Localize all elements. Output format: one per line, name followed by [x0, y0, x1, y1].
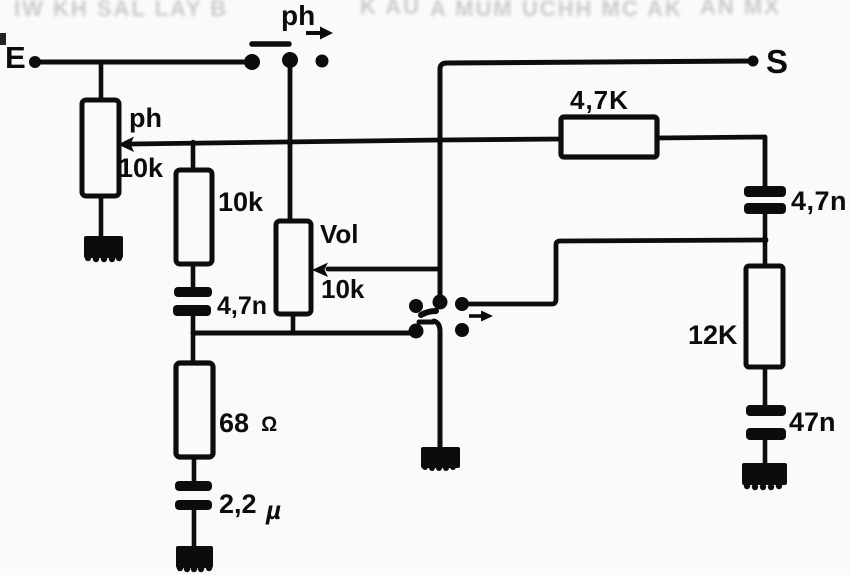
svg-text:4,7n: 4,7n	[217, 292, 267, 320]
svg-text:4,7K: 4,7K	[570, 85, 629, 115]
svg-text:12K: 12K	[688, 320, 738, 350]
svg-text:68: 68	[219, 408, 249, 438]
svg-text:AN MX: AN MX	[700, 0, 781, 19]
svg-text:10k: 10k	[321, 274, 365, 304]
svg-text:2,2: 2,2	[219, 489, 257, 519]
svg-text:S: S	[766, 43, 788, 80]
svg-text:Vol: Vol	[320, 219, 359, 249]
svg-text:µ: µ	[265, 495, 281, 525]
svg-text:10k: 10k	[218, 187, 264, 217]
svg-text:IW KH SAL LAY B: IW KH SAL LAY B	[14, 0, 228, 21]
svg-text:Ω: Ω	[261, 413, 277, 436]
svg-text:K AU: K AU	[360, 0, 421, 19]
svg-text:ph: ph	[281, 0, 315, 31]
svg-text:A MUM UCHH MC AK: A MUM UCHH MC AK	[430, 0, 683, 21]
svg-text:10k: 10k	[118, 153, 164, 183]
svg-text:ph: ph	[129, 103, 162, 133]
svg-text:4,7n: 4,7n	[791, 186, 847, 216]
svg-text:E: E	[5, 40, 26, 75]
svg-text:47n: 47n	[789, 407, 836, 437]
